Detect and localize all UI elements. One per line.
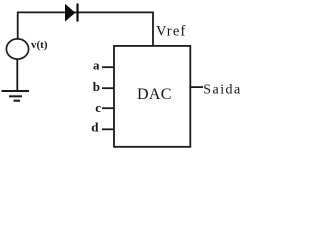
svg-text:d: d: [91, 120, 99, 135]
svg-text:c: c: [95, 100, 101, 115]
svg-text:b: b: [93, 79, 100, 94]
svg-text:a: a: [93, 58, 100, 73]
wire left vertical from top wire down to source: [17, 12, 19, 39]
input stub c: [102, 107, 114, 109]
input stub a: [102, 66, 114, 68]
input stub b: [102, 87, 114, 89]
input stub d: [102, 128, 114, 130]
DAC box U1: [114, 46, 190, 147]
ground bar 1: [2, 90, 30, 92]
wire from source bottom to ground: [16, 60, 18, 92]
wire top horizontal from source corner to Vref corner: [17, 11, 154, 13]
wire Vref vertical down to DAC: [152, 12, 154, 46]
ground bar 3: [14, 100, 21, 102]
diode D1 anode triangle: [65, 4, 75, 22]
ground bar 2: [9, 95, 22, 97]
svg-text:Vref: Vref: [156, 24, 187, 40]
output stub Saida: [190, 86, 203, 88]
svg-text:Saida: Saida: [203, 83, 240, 98]
voltage source v(t) circle: [6, 39, 28, 59]
svg-text:v(t): v(t): [31, 39, 48, 51]
diode D1 cathode bar: [76, 4, 78, 22]
svg-text:DAC: DAC: [137, 86, 172, 103]
